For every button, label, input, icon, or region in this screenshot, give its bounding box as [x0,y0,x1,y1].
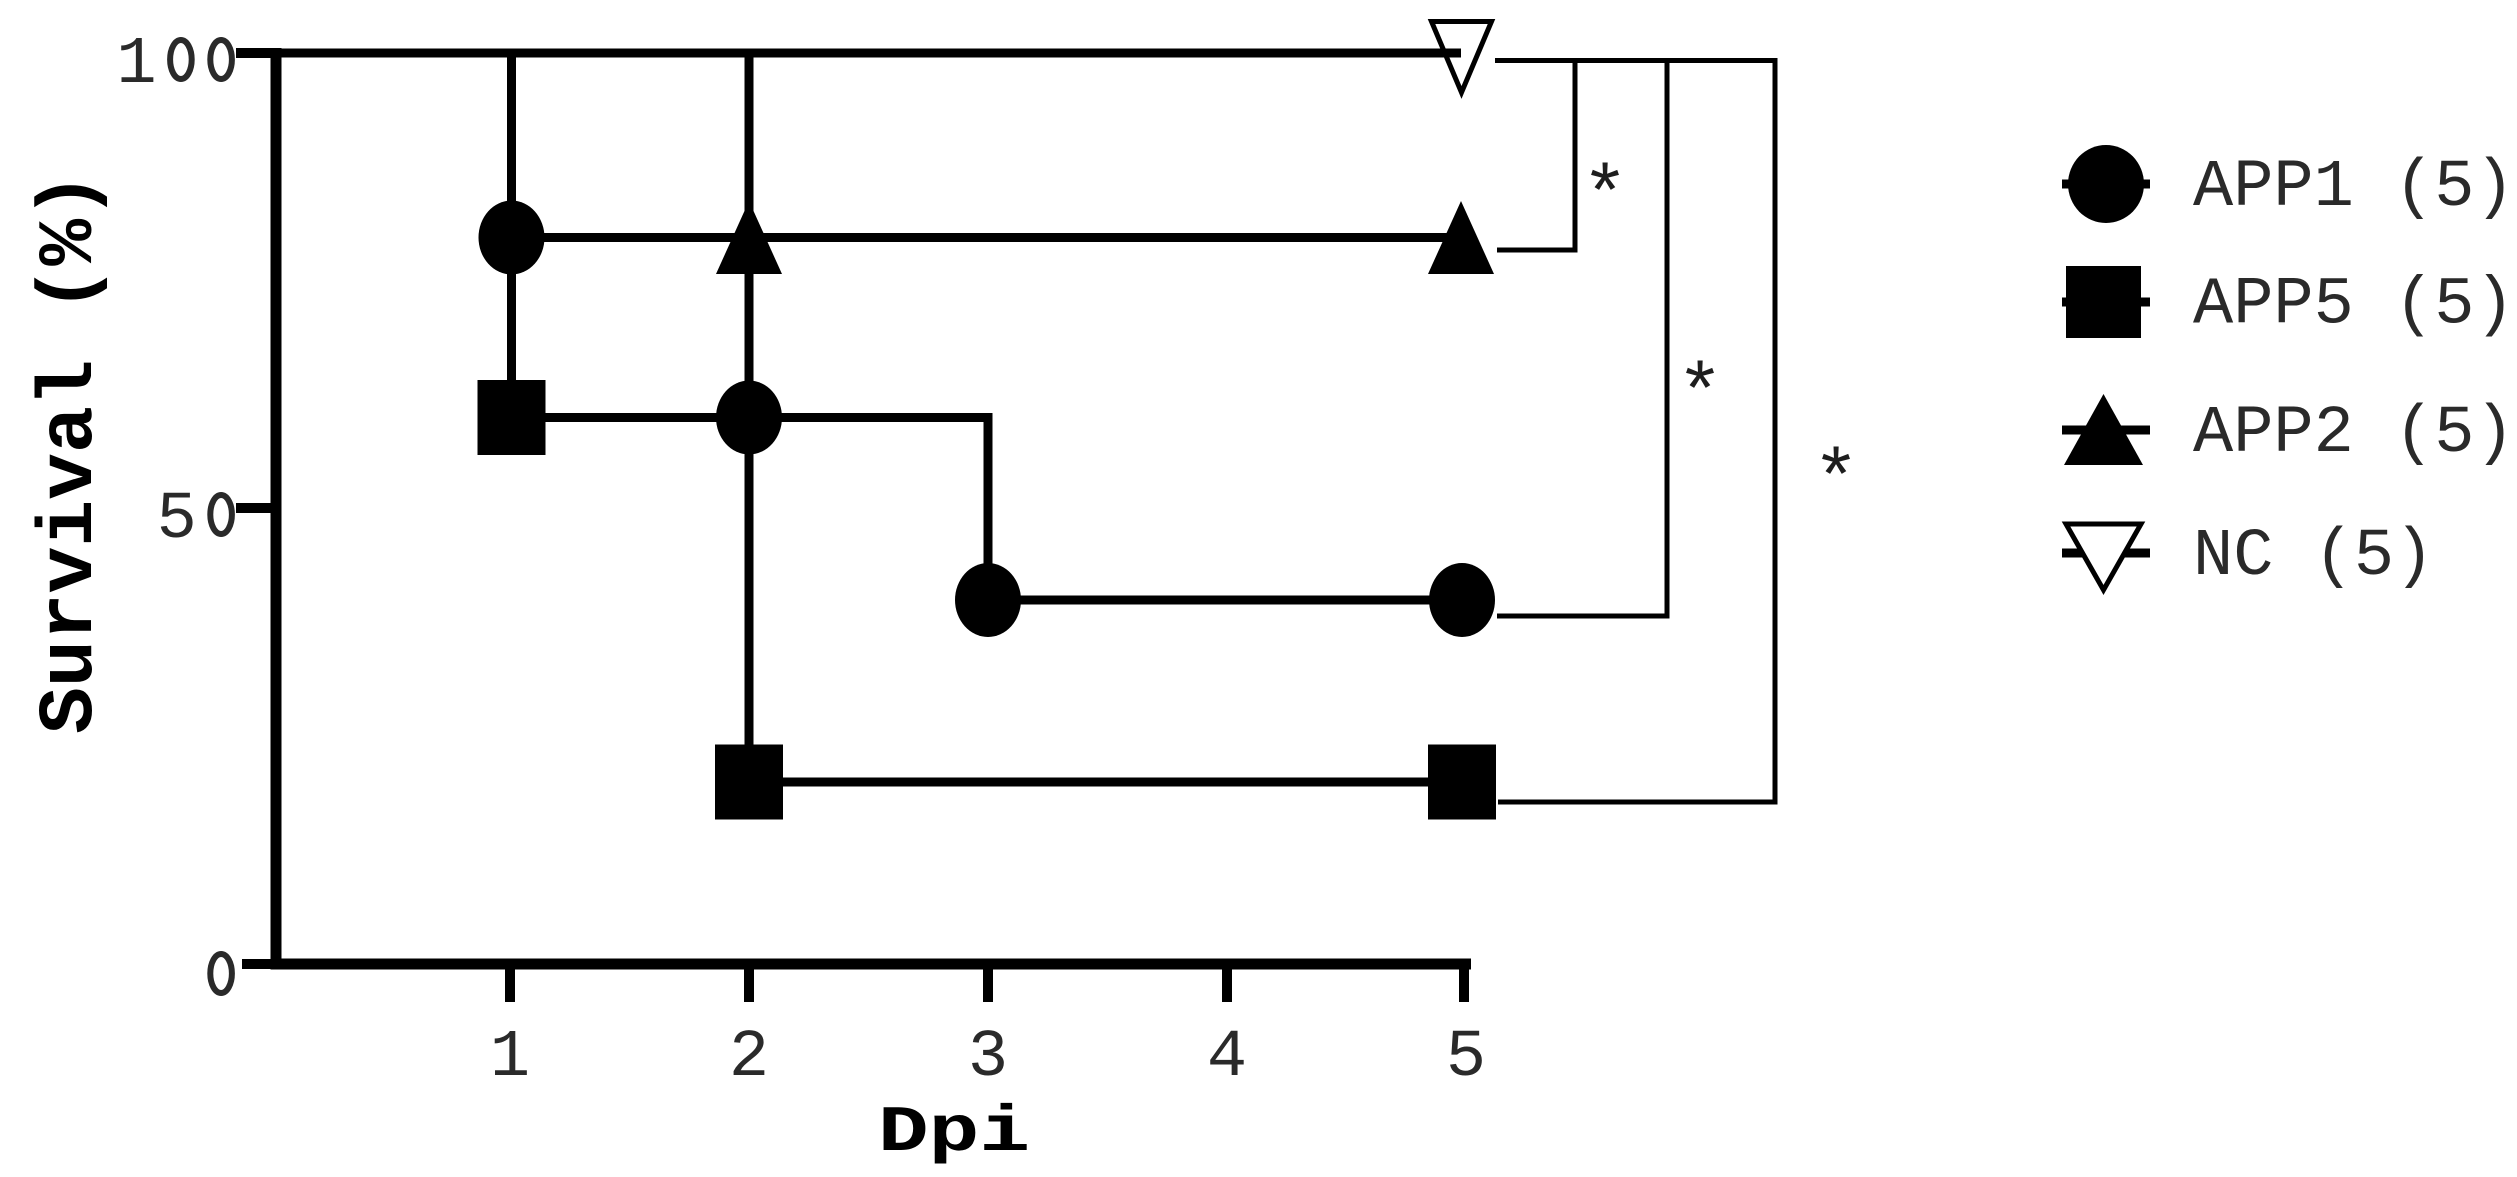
svg-text:APP1 (5): APP1 (5) [2193,150,2515,226]
svg-text:NC (5): NC (5) [2193,519,2434,595]
svg-text:*: * [1813,439,1860,527]
svg-text:Survival (%): Survival (%) [27,172,115,734]
svg-text:APP5 (5): APP5 (5) [2193,268,2515,344]
svg-text:1: 1 [490,1020,530,1096]
svg-text:3: 3 [968,1020,1008,1096]
svg-text:5: 5 [1446,1020,1486,1096]
svg-text:2: 2 [729,1020,769,1096]
svg-text:*: * [1582,155,1629,243]
svg-text:5: 5 [157,482,197,558]
svg-text:*: * [1677,353,1724,441]
svg-text:4: 4 [1207,1020,1247,1096]
svg-text:APP2 (5): APP2 (5) [2193,396,2515,472]
svg-text:Dpi: Dpi [878,1096,1030,1170]
svg-text:1: 1 [116,27,156,103]
